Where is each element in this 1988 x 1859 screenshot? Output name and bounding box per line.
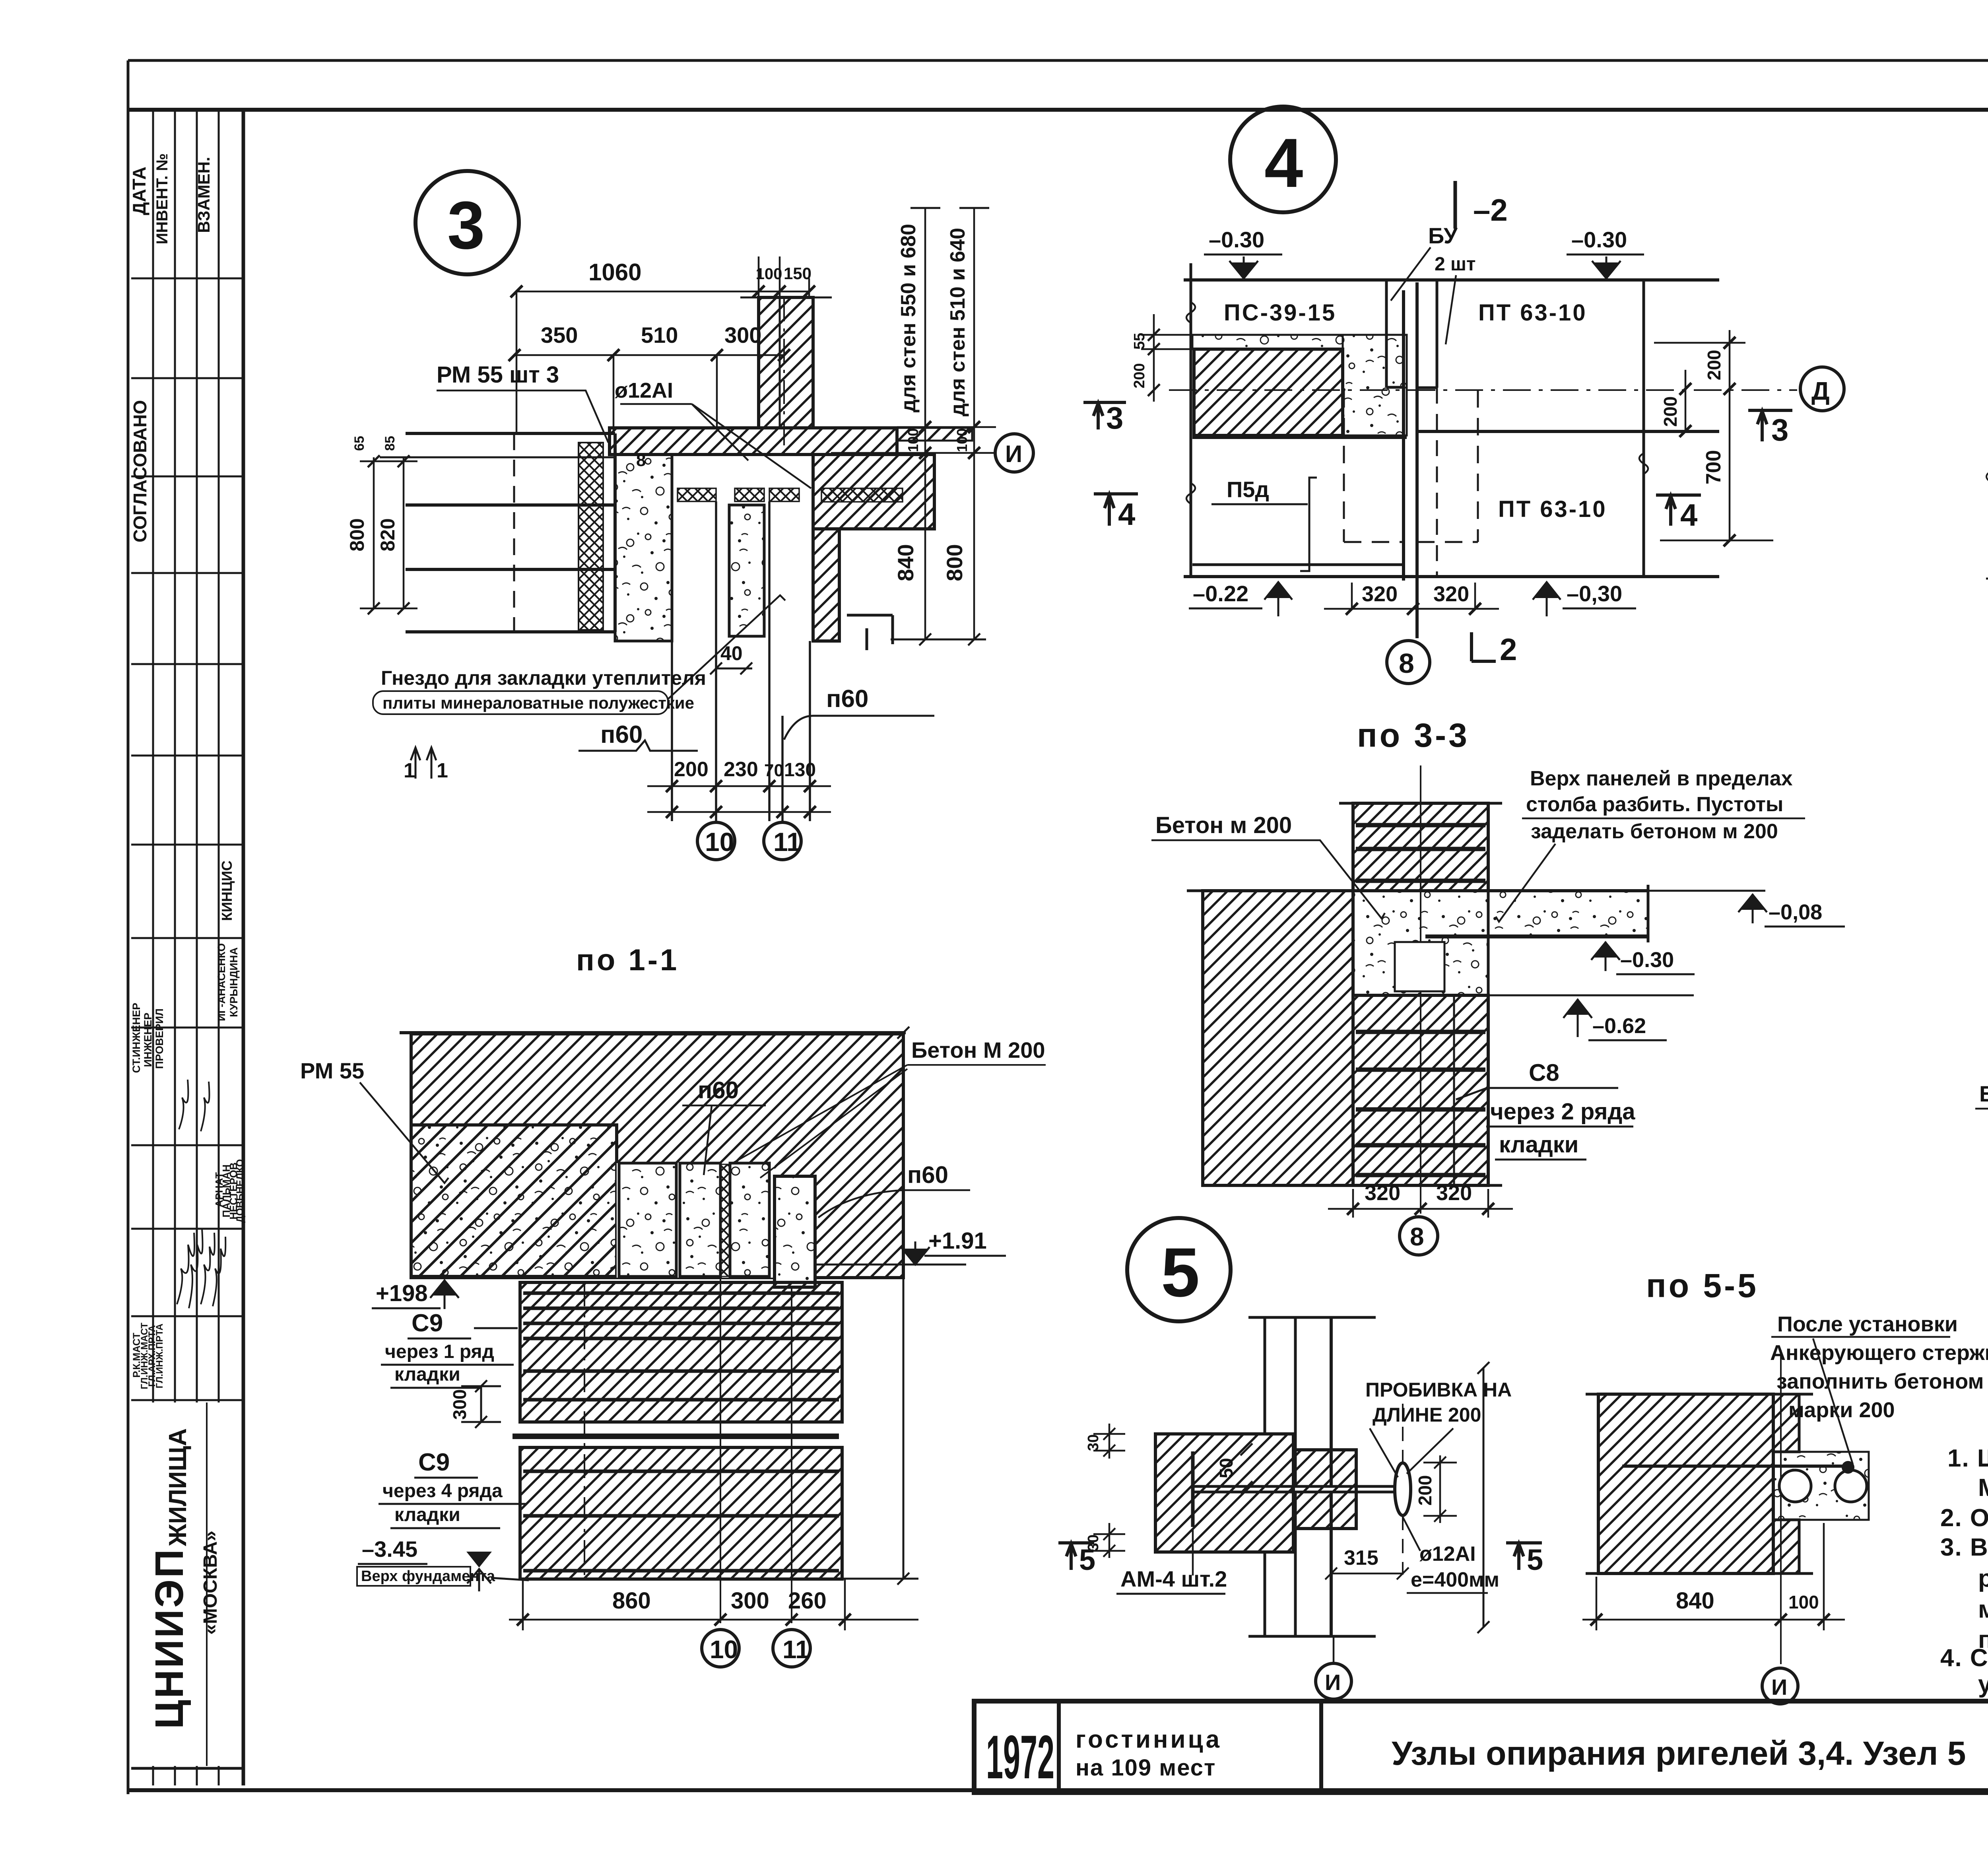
detail circle 5 (1127, 1218, 1231, 1321)
lower column hatched (1353, 995, 1488, 1185)
svg-text:ПРОВЕРИЛ: ПРОВЕРИЛ (153, 1008, 165, 1069)
svg-text:марки 200: марки 200 (1788, 1398, 1895, 1422)
svg-text:Гнездо для закладки утеплителя: Гнездо для закладки утеплителя (381, 667, 706, 689)
svg-text:Бетон М 200: Бетон М 200 (911, 1037, 1045, 1063)
svg-text:плиты минераловатные полужестк: плиты минераловатные полужесткие (382, 693, 694, 712)
svg-text:столба разбить. Пустоты: столба разбить. Пустоты (1526, 793, 1783, 816)
svg-text:8: 8 (1410, 1222, 1424, 1251)
bottom dim 200/230/70/130 (647, 780, 831, 818)
svg-text:1060: 1060 (588, 259, 641, 286)
svg-text:4: 4 (1680, 497, 1697, 532)
svg-text:200: 200 (674, 758, 709, 781)
svg-text:11: 11 (773, 827, 801, 857)
bottom dims 860/300/260 (509, 1579, 918, 1630)
svg-text:100: 100 (905, 428, 921, 452)
svg-text:260: 260 (788, 1588, 827, 1614)
section mark 2 bottom (1472, 632, 1496, 661)
plan top edge (1184, 278, 1719, 282)
svg-text:ø12АI: ø12АI (615, 379, 673, 402)
svg-text:Д: Д (1811, 377, 1830, 405)
svg-text:П5д: П5д (1227, 477, 1269, 502)
svg-text:8: 8 (636, 451, 646, 470)
vertical dim 300 (461, 1380, 501, 1428)
svg-text:4: 4 (1264, 124, 1303, 202)
svg-text:300: 300 (731, 1588, 769, 1614)
section mark T3 right (1748, 410, 1792, 441)
axis circle 11 bottom (773, 1630, 810, 1667)
svg-text:М 100 на всю высоту.: М 100 на всю высоту. (1978, 1474, 1988, 1502)
svg-text:–3.45: –3.45 (362, 1537, 417, 1562)
svg-text:п60: п60 (698, 1077, 739, 1103)
detail circle 3 (415, 171, 519, 274)
svg-text:200: 200 (1415, 1475, 1435, 1506)
svg-text:И: И (1771, 1674, 1787, 1700)
concrete S2 strip (729, 505, 764, 636)
svg-text:«МОСКВА»: «МОСКВА» (200, 1531, 221, 1635)
svg-text:п60: п60 (826, 685, 868, 713)
svg-text:–0.30: –0.30 (1571, 227, 1627, 252)
RM55 beam zone (411, 1125, 617, 1276)
svg-text:для стен 550 и 680: для стен 550 и 680 (897, 224, 920, 412)
svg-text:ИНВЕНТ. №: ИНВЕНТ. № (153, 153, 171, 245)
dim 30 top (1093, 1424, 1125, 1459)
svg-text:100: 100 (1788, 1592, 1819, 1612)
svg-text:2 шт: 2 шт (1435, 254, 1476, 275)
left side dims 800/820 (360, 455, 417, 614)
insulation strip in panel (579, 443, 603, 630)
svg-text:Узлы опирания ригелей 3,4. Узе: Узлы опирания ригелей 3,4. Узел 5 (1392, 1735, 1966, 1772)
section mark T4 left (1094, 494, 1138, 526)
wall lines (1248, 1317, 1376, 1636)
svg-text:–0,08: –0,08 (1769, 900, 1822, 924)
bottom panel inner line (1192, 563, 1404, 566)
svg-text:И: И (1005, 441, 1022, 467)
svg-text:1. Швы между балками заделать: 1. Швы между балками заделать раствором (1947, 1445, 1988, 1472)
svg-text:ДЛИНЕ 200: ДЛИНЕ 200 (1373, 1404, 1481, 1426)
dim 30 bottom (1093, 1523, 1125, 1558)
svg-text:АМ-4 шт.2: АМ-4 шт.2 (1120, 1566, 1227, 1591)
signer names rotated (130, 861, 246, 1389)
svg-text:150: 150 (784, 264, 812, 283)
tall p60 beam (775, 1176, 815, 1287)
svg-text:ИНЖЕНЕР: ИНЖЕНЕР (142, 1013, 154, 1067)
svg-text:8: 8 (1399, 648, 1414, 679)
dim 315 (1325, 1568, 1409, 1579)
axis circle D (Д) (1800, 367, 1844, 411)
BU beam edges center (1386, 280, 1437, 638)
svg-text:КИНЦИС: КИНЦИС (219, 861, 235, 921)
svg-text:5: 5 (1079, 1543, 1095, 1576)
axis circle I (1762, 1668, 1798, 1704)
svg-text:510: 510 (641, 322, 678, 348)
svg-text:С9: С9 (418, 1449, 450, 1476)
svg-text:между пустотами. Пустоты на ур: между пустотами. Пустоты на уровень верх… (1978, 1596, 1988, 1623)
slab end break marks (1986, 461, 1988, 482)
svg-text:2. Опорные монолитные подушки: 2. Опорные монолитные подушки из бетона … (1940, 1504, 1988, 1532)
svg-text:через 1 ряд: через 1 ряд (385, 1341, 494, 1362)
thick line under pad (1192, 435, 1407, 439)
svg-text:+1.91: +1.91 (928, 1228, 987, 1254)
svg-text:заделать бетоном м 200: заделать бетоном м 200 (1531, 820, 1778, 843)
svg-text:840: 840 (893, 544, 918, 581)
concrete fill right of pad (1343, 335, 1407, 435)
svg-text:по 5-5: по 5-5 (1646, 1267, 1759, 1304)
dim line 350/510/300 (509, 349, 790, 433)
svg-text:3. В пределах столбов верх па: 3. В пределах столбов верх панелей в мес… (1940, 1534, 1988, 1561)
svg-text:Бетон м 200: Бетон м 200 (1979, 1081, 1988, 1106)
svg-text:5: 5 (1527, 1543, 1543, 1576)
plan bottom edge (1184, 575, 1719, 578)
T-anchor (1191, 1451, 1195, 1527)
svg-text:Бетон м 200: Бетон м 200 (1155, 812, 1292, 838)
svg-text:200: 200 (1660, 396, 1681, 427)
svg-text:–0.62: –0.62 (1592, 1014, 1646, 1038)
detail circle 4 (1230, 107, 1336, 212)
svg-text:через 4 ряда: через 4 ряда (382, 1480, 503, 1502)
svg-text:ПРОБИВКА НА: ПРОБИВКА НА (1365, 1379, 1512, 1401)
svg-text:по 3-3: по 3-3 (1357, 717, 1470, 754)
leader to insulation socket (668, 595, 785, 699)
svg-text:55: 55 (1131, 333, 1148, 350)
svg-text:ГЛ.ИНЖ.ПРТА: ГЛ.ИНЖ.ПРТА (154, 1324, 165, 1389)
svg-text:ЦНИИЭП: ЦНИИЭП (147, 1548, 192, 1729)
dim 840/100 (1582, 1523, 1845, 1630)
svg-text:1: 1 (437, 759, 448, 782)
axis circle I (1333, 1636, 1335, 1663)
svg-text:–0,30: –0,30 (1567, 581, 1622, 606)
svg-text:320: 320 (1362, 582, 1398, 606)
axis circle I (И) (995, 434, 1033, 472)
masonry wall left (1203, 891, 1353, 1185)
svg-text:65: 65 (352, 436, 367, 451)
svg-text:–0.30: –0.30 (1620, 948, 1674, 972)
svg-text:кладки: кладки (1499, 1132, 1578, 1158)
big hatched wall mass (411, 1034, 903, 1278)
svg-text:230: 230 (724, 758, 758, 781)
svg-text:С8: С8 (1529, 1059, 1559, 1086)
section mark T4 right (1656, 495, 1701, 526)
inner frame bottom (128, 1788, 1988, 1792)
svg-text:300: 300 (724, 322, 761, 348)
svg-text:СОГЛАСОВАНО: СОГЛАСОВАНО (130, 400, 150, 542)
svg-text:После установки: После установки (1777, 1312, 1958, 1336)
right side dim verticals (831, 208, 996, 645)
axis vertical line (1780, 1350, 1782, 1664)
anchor washer ellipse (1395, 1463, 1411, 1515)
dim 200 at washer (1423, 1455, 1457, 1523)
svg-text:п60: п60 (600, 721, 643, 748)
svg-text:320: 320 (1365, 1181, 1400, 1205)
svg-text:100: 100 (756, 265, 782, 283)
concrete S1 under slab (615, 455, 672, 641)
svg-text:320: 320 (1433, 582, 1469, 606)
svg-text:И: И (1325, 1670, 1341, 1695)
svg-text:200: 200 (1704, 350, 1724, 381)
svg-text:+198: +198 (376, 1280, 428, 1306)
left stamp column grid (131, 110, 243, 1785)
left panel edge (1190, 263, 1192, 578)
svg-text:2: 2 (1500, 632, 1517, 667)
svg-text:КУРЫНДИНА: КУРЫНДИНА (228, 947, 240, 1017)
svg-text:С9: С9 (412, 1309, 443, 1337)
svg-text:10: 10 (705, 827, 734, 857)
svg-text:ПТ 63-10: ПТ 63-10 (1498, 496, 1607, 522)
svg-text:п60: п60 (907, 1162, 948, 1188)
axis circle 8 (1400, 1217, 1438, 1255)
svg-text:гостиница: гостиница (1076, 1726, 1222, 1753)
axis dash in column (783, 297, 785, 455)
core hole white (1395, 942, 1444, 991)
svg-text:85: 85 (382, 436, 398, 451)
axis dash lines in masonry (584, 1282, 585, 1579)
svg-text:1: 1 (404, 759, 415, 782)
title block frame (974, 1701, 1988, 1793)
edge break marks (1186, 302, 1648, 504)
svg-text:РМ 55: РМ 55 (300, 1058, 364, 1083)
mesh bar in gap (513, 1434, 839, 1439)
svg-text:315: 315 (1344, 1546, 1378, 1570)
slab right speckled (1488, 891, 1648, 936)
svg-text:ИГ-АНАСЕНКО: ИГ-АНАСЕНКО (215, 943, 227, 1021)
anchor rod (1622, 1465, 1845, 1468)
svg-text:11: 11 (782, 1635, 810, 1664)
column band above (759, 297, 813, 428)
section mark T5 left (1058, 1543, 1094, 1570)
right boundary line (1477, 1362, 1489, 1633)
joint concrete with cores (1773, 1452, 1869, 1520)
svg-text:50: 50 (1216, 1458, 1237, 1478)
svg-text:условно не показаны.: условно не показаны. (1978, 1671, 1988, 1698)
AM-4 label (1192, 1529, 1194, 1575)
column axis (1420, 765, 1421, 1214)
corner bracket mark (847, 615, 893, 650)
svg-text:820: 820 (377, 518, 399, 551)
svg-text:ПТ 63-10: ПТ 63-10 (1478, 300, 1587, 326)
svg-text:ДОВБНЕЛКО: ДОВБНЕЛКО (235, 1159, 246, 1223)
svg-text:40: 40 (720, 642, 743, 664)
svg-text:заполнить бетоном: заполнить бетоном (1776, 1369, 1984, 1393)
bottom line of joint (1488, 995, 1694, 997)
section marks 1 bottom left (411, 748, 420, 779)
dashed opening outline (1344, 390, 1478, 542)
beam verticals going down (672, 455, 810, 821)
hatched block (1598, 1394, 1773, 1573)
svg-text:ДАТА: ДАТА (129, 167, 149, 215)
institute logo rotated (147, 1428, 221, 1729)
masonry upper block (520, 1282, 842, 1422)
svg-text:70: 70 (764, 761, 784, 780)
svg-text:4: 4 (1118, 497, 1135, 532)
wall panel plan (left) (380, 433, 615, 632)
svg-text:–0.22: –0.22 (1193, 581, 1248, 606)
concrete joint zone (1353, 891, 1488, 995)
monolith pad hatched (1194, 349, 1343, 435)
svg-text:ВЗАМЕН.: ВЗАМЕН. (194, 157, 213, 233)
masonry lower block (520, 1447, 842, 1579)
axis circle 11 (764, 822, 801, 860)
svg-text:30: 30 (1085, 1434, 1102, 1451)
axis dash-dot line (1169, 389, 1797, 391)
svg-text:e=400мм: e=400мм (1411, 1568, 1499, 1591)
svg-text:10: 10 (710, 1635, 738, 1664)
svg-text:БУ: БУ (1428, 223, 1458, 248)
svg-text:Верх панелей в пределах: Верх панелей в пределах (1530, 767, 1793, 790)
svg-text:Анкерующего стержня: Анкерующего стержня (1770, 1341, 1988, 1365)
svg-text:для стен 510 и 640: для стен 510 и 640 (946, 228, 969, 416)
svg-text:100: 100 (954, 428, 970, 452)
top-right panel bottom edge (1417, 430, 1719, 433)
svg-text:800: 800 (942, 544, 967, 581)
svg-text:кладки: кладки (394, 1364, 460, 1385)
axis circle 10 (697, 822, 735, 860)
svg-text:320: 320 (1436, 1181, 1472, 1205)
svg-text:5: 5 (1161, 1234, 1200, 1311)
svg-text:3: 3 (1771, 412, 1788, 447)
svg-text:1972: 1972 (986, 1723, 1054, 1791)
inner frame top (128, 108, 1988, 112)
dim line 1060/100/150 (511, 256, 815, 433)
insulation strips under slab (678, 488, 716, 501)
level mark arrowheads (432, 262, 1988, 1568)
logo panel (134, 1403, 241, 1766)
axis circle 10 bottom (702, 1630, 739, 1667)
dim 40 (710, 662, 752, 674)
floor slab hatched band (610, 428, 897, 455)
section mark -2 top (1454, 181, 1457, 229)
svg-text:ЖИЛИЩА: ЖИЛИЩА (164, 1428, 192, 1547)
svg-text:300: 300 (449, 1389, 470, 1420)
svg-text:ПС-39-15: ПС-39-15 (1224, 300, 1336, 326)
right vertical dim line (842, 1027, 918, 1585)
axis circle 8 (1387, 641, 1430, 684)
dim 320/320 bottom (1324, 583, 1499, 615)
svg-text:Верх фундамента: Верх фундамента (361, 1568, 495, 1585)
svg-text:ø12АI: ø12АI (1419, 1542, 1476, 1566)
section mark T5 right (1506, 1543, 1542, 1570)
svg-text:200: 200 (1131, 363, 1148, 388)
svg-text:860: 860 (612, 1588, 651, 1614)
svg-text:через 2 ряда: через 2 ряда (1490, 1099, 1635, 1125)
svg-text:–2: –2 (1473, 192, 1508, 227)
svg-text:РМ 55 шт 3: РМ 55 шт 3 (437, 362, 559, 388)
svg-text:по 1-1: по 1-1 (576, 943, 679, 977)
svg-text:3: 3 (1106, 400, 1123, 435)
mortar bed speckle band (1192, 335, 1343, 349)
hatched anchor block (1155, 1434, 1293, 1552)
signature scribbles (177, 1080, 225, 1308)
right side dims of plan (1644, 280, 1773, 578)
svg-text:350: 350 (541, 322, 578, 348)
svg-text:на 109 мест: на 109 мест (1076, 1755, 1216, 1781)
svg-text:700: 700 (1702, 450, 1725, 485)
rotated header labels (129, 153, 213, 542)
dim 320/320 (1328, 1189, 1513, 1218)
svg-text:4. Сетки С-1, уложенные в прим: 4. Сетки С-1, уложенные в примыкающих ст… (1940, 1644, 1988, 1672)
upper column hatched (1353, 803, 1488, 891)
svg-text:разбить без нарушения вертикал: разбить без нарушения вертикальных диафр… (1978, 1565, 1988, 1592)
svg-text:СТ.ИНЖЕНЕР: СТ.ИНЖЕНЕР (130, 1003, 142, 1073)
svg-text:840: 840 (1676, 1588, 1714, 1614)
section mark T3 left (1083, 402, 1126, 429)
p60 beams zone (617, 1163, 775, 1278)
right wall panel hatched (813, 455, 934, 529)
svg-text:–0.30: –0.30 (1209, 227, 1264, 252)
svg-text:3: 3 (447, 188, 485, 263)
svg-text:кладки: кладки (394, 1504, 460, 1525)
svg-text:130: 130 (784, 760, 816, 781)
svg-text:800: 800 (346, 518, 368, 551)
